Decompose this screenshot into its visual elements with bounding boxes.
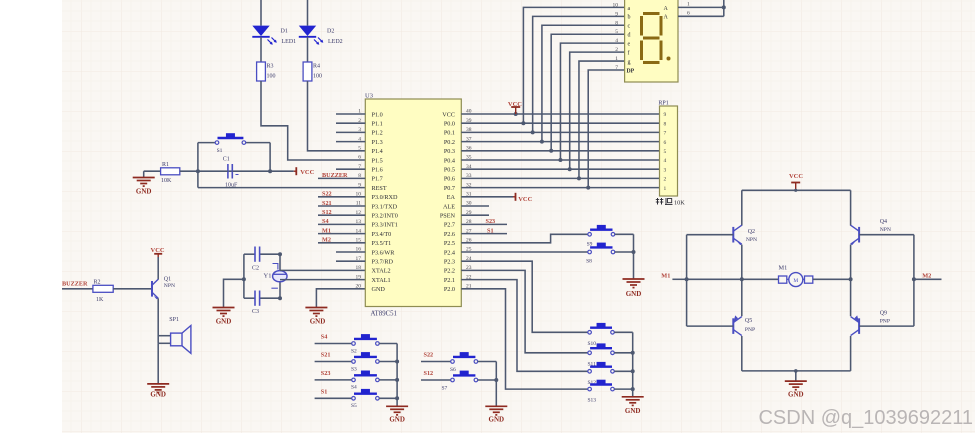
wire ALE stub	[461, 205, 489, 207]
svg-text:REST: REST	[372, 185, 387, 192]
svg-text:P0.5: P0.5	[444, 167, 455, 174]
svg-text:100: 100	[313, 74, 322, 80]
svg-text:a: a	[628, 6, 631, 12]
svg-text:P3.0/RXD: P3.0/RXD	[372, 194, 398, 201]
svg-text:c: c	[628, 24, 631, 30]
transistor Q5 PNP	[733, 315, 755, 335]
LED D1	[252, 0, 296, 62]
wire right vert mid	[849, 245, 853, 317]
crystal Y1	[264, 252, 287, 300]
svg-text:6: 6	[358, 155, 361, 161]
wire to GND buzzer	[157, 343, 159, 384]
wire net S12 stub	[421, 370, 451, 380]
wire net S23 stub	[315, 370, 352, 380]
svg-text:NPN: NPN	[880, 227, 891, 233]
wire top rail	[742, 189, 851, 192]
svg-text:P3.3/INT1: P3.3/INT1	[372, 222, 398, 229]
switch S2	[351, 334, 379, 354]
svg-text:100: 100	[267, 74, 276, 80]
power VCC hbridge	[789, 173, 803, 190]
switch S13	[588, 380, 615, 404]
svg-text:P2.2: P2.2	[444, 268, 455, 275]
svg-text:P1.1: P1.1	[372, 121, 383, 128]
wire P0.6 row	[461, 177, 659, 179]
svg-text:RP1: RP1	[658, 101, 668, 107]
svg-text:P0.2: P0.2	[444, 139, 455, 146]
svg-text:GND: GND	[310, 318, 326, 326]
wire bottom rail	[742, 369, 851, 373]
svg-text:M2: M2	[322, 237, 331, 244]
svg-text:P1.6: P1.6	[372, 167, 383, 174]
svg-text:M1: M1	[779, 264, 788, 271]
svg-text:S6: S6	[450, 367, 456, 373]
node M1 net label	[661, 273, 686, 280]
svg-text:P3.2/INT0: P3.2/INT0	[372, 213, 398, 220]
svg-text:D1: D1	[281, 29, 288, 35]
switch S4	[351, 371, 379, 391]
wire switch S2 to rail	[379, 343, 397, 345]
wire right base rail	[912, 235, 916, 326]
wire pin15 net M2	[318, 237, 365, 244]
svg-text:S2: S2	[351, 348, 357, 354]
svg-text:EA: EA	[447, 194, 456, 201]
wire P0.5 row	[461, 168, 659, 170]
svg-text:Q4: Q4	[880, 219, 887, 225]
svg-text:BUZZER: BUZZER	[62, 281, 88, 288]
wire right vert bottom	[850, 336, 852, 371]
svg-text:BUZZER: BUZZER	[322, 172, 348, 179]
svg-text:C3: C3	[252, 309, 259, 315]
node M2 net label	[914, 273, 942, 280]
wire net S4 stub	[315, 334, 352, 344]
ground GND hbridge	[785, 381, 807, 398]
7-segment pin numbers	[613, 2, 619, 71]
svg-text:GND: GND	[626, 290, 642, 298]
svg-text:VCC: VCC	[518, 196, 532, 203]
svg-text:PNP: PNP	[880, 319, 890, 325]
svg-text:1K: 1K	[96, 297, 104, 303]
wire switch S13 to rail	[614, 388, 632, 390]
svg-text:5: 5	[358, 146, 361, 152]
wire P2.7 net S23	[461, 218, 507, 225]
svg-text:M1: M1	[322, 227, 331, 234]
svg-text:S13: S13	[588, 398, 597, 404]
svg-text:GND: GND	[372, 286, 386, 293]
svg-text:19: 19	[356, 274, 362, 280]
svg-text:PNP: PNP	[745, 327, 755, 333]
wire bus seg0	[521, 7, 624, 125]
wire switch S5 to rail	[379, 397, 397, 399]
svg-text:S21: S21	[322, 200, 332, 207]
svg-text:9: 9	[358, 182, 361, 188]
svg-text:1: 1	[664, 186, 667, 192]
wire switch S11 to rail	[614, 352, 632, 354]
wire P2.2 drop	[461, 270, 588, 352]
svg-text:R1: R1	[162, 162, 169, 168]
ground GND BM cluster	[485, 406, 507, 423]
svg-text:S12: S12	[322, 209, 332, 216]
svg-text:D2: D2	[327, 29, 334, 35]
ground GND buzzer	[147, 384, 169, 398]
wire P2.1 drop	[461, 280, 588, 372]
wire P0.3 row	[461, 150, 659, 152]
svg-text:P2.6: P2.6	[444, 231, 455, 238]
svg-text:Q5: Q5	[745, 318, 752, 324]
svg-text:GND: GND	[489, 416, 505, 424]
svg-text:GND: GND	[136, 188, 152, 196]
svg-text:4: 4	[615, 38, 618, 44]
svg-text:VCC: VCC	[442, 111, 455, 118]
ground GND reset	[133, 171, 155, 195]
svg-text:7: 7	[664, 131, 667, 137]
svg-text:P2.4: P2.4	[444, 249, 455, 256]
ground GND BR cluster	[622, 397, 644, 415]
wire net S1 stub	[315, 388, 352, 398]
svg-text:S23: S23	[486, 218, 496, 225]
svg-text:2: 2	[615, 47, 618, 53]
switch S3	[351, 352, 379, 372]
wire mid rail right	[813, 278, 851, 280]
svg-text:S1: S1	[487, 227, 494, 234]
svg-text:GND: GND	[788, 391, 804, 399]
ground GND mcu	[305, 308, 327, 326]
svg-text:XTAL1: XTAL1	[372, 277, 391, 284]
svg-text:P2.0: P2.0	[444, 286, 455, 293]
wire P2.4 to S8	[461, 251, 588, 253]
switch S10	[588, 323, 615, 347]
wire to GND crystal	[224, 279, 244, 307]
resistor network RP1	[658, 101, 677, 197]
svg-text:10K: 10K	[161, 178, 172, 184]
svg-text:LED2: LED2	[328, 39, 343, 45]
svg-text:d: d	[628, 33, 631, 39]
wire pin13 net S4	[318, 218, 365, 225]
wire VCC row pin40	[461, 112, 659, 116]
ground GND BL cluster	[386, 406, 408, 423]
wire MCU left stubs	[336, 114, 365, 261]
svg-text:VCC: VCC	[789, 173, 803, 180]
svg-text:S1: S1	[321, 388, 328, 395]
svg-text:DP: DP	[627, 68, 635, 74]
wire rail S8S9	[632, 234, 636, 279]
svg-text:5: 5	[615, 29, 618, 35]
svg-text:P0.3: P0.3	[444, 148, 455, 155]
svg-text:P2.1: P2.1	[444, 277, 455, 284]
svg-text:PSEN: PSEN	[440, 213, 456, 220]
resistor R4 100	[303, 62, 322, 81]
power VCC buzzer	[151, 247, 165, 258]
wire pin10 net S22	[318, 191, 365, 198]
wire pin11 net S21	[318, 200, 365, 207]
capacitor C3	[244, 291, 280, 316]
resistor R2 1K	[93, 280, 113, 303]
svg-text:VCC: VCC	[300, 169, 314, 176]
svg-text:GND: GND	[389, 416, 405, 424]
svg-text:P3.1/TXD: P3.1/TXD	[372, 203, 398, 210]
svg-text:10: 10	[613, 2, 619, 8]
capacitor C1 10uF	[198, 157, 270, 189]
wire GND pin20	[316, 289, 365, 308]
wire bus seg7	[586, 70, 624, 190]
wire PSEN stub	[461, 214, 489, 216]
svg-text:S23: S23	[321, 370, 331, 377]
switch S6	[450, 352, 478, 373]
svg-text:Q2: Q2	[748, 229, 755, 235]
svg-text:6: 6	[664, 140, 667, 146]
wire Q5 base	[687, 325, 734, 327]
wire switch S12 to rail	[614, 370, 632, 372]
svg-text:GND: GND	[150, 390, 166, 398]
svg-text:ALE: ALE	[443, 203, 455, 210]
svg-text:SP1: SP1	[169, 317, 179, 323]
wire Q9 base	[859, 325, 914, 327]
svg-text:P2.5: P2.5	[444, 240, 455, 247]
svg-text:A: A	[664, 15, 669, 21]
switch S5	[351, 389, 379, 409]
transistor Q9 PNP	[851, 311, 890, 336]
wire rail BL	[395, 344, 399, 407]
wire VCC stub reset	[270, 170, 294, 172]
svg-text:P2.7: P2.7	[444, 222, 455, 229]
svg-text:S4: S4	[322, 218, 329, 225]
label RP1 value 10K	[656, 198, 685, 206]
transistor Q2 NPN	[733, 225, 757, 245]
wire left vert top	[741, 190, 743, 225]
svg-text:M: M	[793, 278, 798, 284]
svg-text:P1.3: P1.3	[372, 139, 383, 146]
svg-text:Q1: Q1	[164, 277, 171, 283]
wire Q1 collector	[157, 257, 159, 280]
op-amp U3 AT89C51 MCU	[356, 93, 472, 318]
svg-text:C2: C2	[252, 265, 259, 271]
svg-text:5: 5	[664, 149, 667, 155]
svg-text:P2.3: P2.3	[444, 259, 455, 266]
svg-text:P3.4/T0: P3.4/T0	[372, 231, 392, 238]
svg-text:3: 3	[664, 167, 667, 173]
svg-text:P1.0: P1.0	[372, 111, 383, 118]
svg-text:e: e	[628, 42, 631, 48]
svg-text:P3.7/RD: P3.7/RD	[372, 259, 394, 266]
wire P0.4 row	[461, 159, 659, 161]
wire left base rail	[685, 235, 689, 326]
node BUZZER net	[62, 281, 88, 288]
wire P0.2 row	[461, 141, 659, 143]
svg-text:S8: S8	[586, 258, 592, 264]
svg-text:P3.5/T1: P3.5/T1	[372, 240, 392, 247]
7-segment display DS1	[625, 0, 678, 82]
wire GND drop hbridge	[795, 371, 797, 381]
svg-text:GND: GND	[625, 407, 641, 415]
svg-text:Q9: Q9	[880, 311, 887, 317]
svg-text:P1.4: P1.4	[372, 148, 383, 155]
svg-text:S1: S1	[217, 148, 223, 154]
svg-text:NPN: NPN	[164, 283, 175, 289]
wire bus seg2	[540, 25, 625, 143]
wire R4 to P1.4	[308, 81, 366, 151]
wire EA pin31	[461, 196, 513, 198]
wire switch S3 to rail	[379, 361, 397, 363]
svg-text:CSDN @q_1039692211: CSDN @q_1039692211	[758, 407, 973, 429]
wire reset loop left	[197, 143, 199, 188]
svg-text:9: 9	[664, 112, 667, 118]
resistor R3 100	[257, 62, 276, 81]
svg-text:10K: 10K	[674, 199, 685, 206]
svg-text:M1: M1	[661, 273, 670, 280]
svg-text:4: 4	[664, 158, 667, 164]
svg-text:P1.2: P1.2	[372, 130, 383, 137]
switch S7	[442, 371, 478, 392]
svg-text:P0.4: P0.4	[444, 157, 455, 164]
wire Q1 emitter	[157, 298, 159, 343]
switch S1 reset	[215, 133, 246, 154]
wire XTAL2	[280, 269, 365, 271]
wire bus seg3	[549, 34, 624, 153]
svg-text:NPN: NPN	[746, 237, 757, 243]
svg-text:P3.6/WR: P3.6/WR	[372, 249, 396, 256]
wire switch S7 to rail	[478, 379, 497, 381]
svg-text:U3: U3	[365, 93, 373, 100]
svg-text:P0.1: P0.1	[444, 130, 455, 137]
wire left vert mid	[740, 245, 744, 317]
svg-text:P1.5: P1.5	[372, 157, 383, 164]
svg-text:7: 7	[615, 65, 618, 71]
svg-text:S5: S5	[351, 403, 357, 409]
wire crystal loop left	[242, 254, 246, 298]
switch S11	[588, 343, 615, 367]
wire bus seg6	[577, 61, 625, 180]
wire BUZZER pin8	[318, 177, 365, 179]
svg-text:2: 2	[664, 177, 667, 183]
wire P0.7 row	[461, 187, 659, 189]
speaker SP1	[158, 317, 191, 353]
svg-text:S7: S7	[442, 385, 448, 391]
wire rail BM	[494, 362, 498, 407]
wire S9 to rail	[615, 233, 634, 235]
node BUZZER label	[322, 172, 348, 179]
wire XTAL1	[280, 279, 365, 281]
ground GND S8S9	[623, 279, 645, 298]
svg-text:8: 8	[664, 121, 667, 127]
svg-text:b: b	[628, 15, 631, 21]
svg-text:P0.7: P0.7	[444, 185, 455, 192]
wire reset loop right	[269, 143, 271, 172]
wire REST row	[198, 187, 365, 189]
wire bus seg1	[531, 16, 625, 134]
wire left vert bottom	[741, 336, 743, 371]
svg-text:GND: GND	[216, 318, 232, 326]
svg-text:9: 9	[615, 11, 618, 17]
svg-text:S4: S4	[321, 334, 328, 341]
svg-text:C1: C1	[223, 157, 230, 163]
svg-text:f: f	[628, 50, 630, 57]
ground GND crystal	[213, 308, 235, 326]
svg-text:XTAL2: XTAL2	[372, 268, 391, 275]
wire mid rail left	[687, 278, 779, 280]
transistor Q4 NPN	[851, 219, 891, 245]
wire switch S4 to rail	[379, 379, 397, 381]
power VCC EA	[513, 193, 533, 203]
svg-text:LED1: LED1	[282, 39, 297, 45]
power VCC pin40	[508, 101, 522, 114]
wire rail BR	[631, 332, 635, 397]
wire BUZZER stub	[62, 288, 93, 290]
svg-text:S10: S10	[588, 341, 597, 347]
svg-text:P0.0: P0.0	[444, 121, 455, 128]
svg-text:8: 8	[615, 20, 618, 26]
wire R3 to P1.5	[261, 81, 365, 160]
wire switch S10 to rail	[614, 331, 632, 333]
svg-text:A: A	[664, 6, 669, 12]
switch S8	[586, 243, 615, 265]
svg-text:S4: S4	[351, 385, 357, 391]
wire pin12 net S12	[318, 209, 365, 216]
wire bus seg5	[568, 52, 625, 171]
wire P2.5 to S9	[461, 234, 588, 243]
svg-text:18: 18	[356, 265, 362, 271]
svg-text:Y1: Y1	[264, 273, 272, 280]
wire P0.0 row	[461, 122, 659, 124]
wire P0.1 row	[461, 131, 659, 133]
wire R2 to base	[113, 288, 152, 290]
wire switch S6 to rail	[478, 361, 497, 363]
svg-text:R3: R3	[267, 64, 274, 70]
wire Q2 base	[687, 234, 734, 236]
wire right vert top	[850, 190, 852, 225]
svg-text:S12: S12	[424, 370, 434, 377]
svg-text:R2: R2	[94, 280, 101, 286]
power VCC reset	[294, 167, 315, 176]
svg-text:20: 20	[356, 284, 362, 290]
svg-text:S22: S22	[322, 191, 332, 198]
motor M1	[779, 264, 813, 286]
svg-text:1: 1	[687, 2, 690, 8]
wire P2.0 drop	[461, 289, 588, 389]
wire 7seg common anode	[678, 0, 726, 17]
svg-text:1: 1	[615, 56, 618, 62]
wire GND to R1	[144, 170, 161, 172]
svg-text:S22: S22	[424, 352, 434, 359]
wire R1 to node	[180, 169, 272, 173]
svg-text:AT89C51: AT89C51	[371, 310, 397, 317]
switch S12	[588, 362, 615, 386]
svg-text:6: 6	[687, 11, 690, 17]
svg-text:P1.7: P1.7	[372, 176, 383, 183]
resistor R1 10K	[161, 162, 180, 184]
wire P2.3 drop	[461, 261, 588, 332]
wire net S21 stub	[315, 352, 352, 362]
svg-text:P0.6: P0.6	[444, 176, 455, 183]
LED D2	[299, 0, 343, 62]
wire switch row	[198, 142, 270, 144]
capacitor C2	[244, 247, 280, 272]
svg-text:R4: R4	[313, 64, 320, 70]
svg-text:S21: S21	[321, 352, 331, 359]
wire bus seg4	[558, 43, 624, 162]
svg-text:g: g	[628, 59, 631, 65]
wire P2.6 net S1	[461, 227, 507, 234]
wire net S22 stub	[421, 352, 451, 362]
wire pin14 net M1	[318, 227, 365, 234]
wire Q4 base	[859, 234, 914, 236]
svg-text:S3: S3	[351, 366, 357, 372]
svg-text:VCC: VCC	[508, 101, 522, 108]
switch S9	[587, 225, 615, 248]
transistor Q1 NPN	[152, 277, 175, 300]
wire S8 to rail	[615, 251, 634, 253]
